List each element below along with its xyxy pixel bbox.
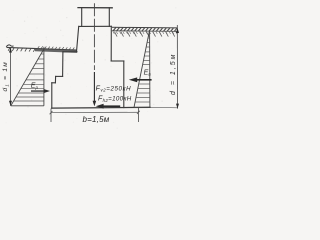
ground hatch ticks left (below line) (8, 48, 35, 52)
ground band right (hatched strip) (112, 26, 178, 29)
left pressure triangle (passive) (11, 47, 44, 106)
right step (111, 60, 124, 62)
hypotenuse (134, 30, 150, 107)
block right edge (110, 26, 112, 61)
left lower-mid edge (54, 76, 56, 82)
dense fringe below right ground band (113, 32, 177, 34)
scan noise speckles (2, 4, 176, 129)
left step 3 (52, 82, 56, 84)
ticks above ground line near wall (38, 46, 75, 50)
d dimension line (right) (176, 25, 178, 109)
force Fv arrow (vertical, on axis) (93, 72, 95, 102)
lower left edge (51, 83, 53, 108)
d1 arrows (9, 48, 12, 106)
svg-text:b=1,5м: b=1,5м (83, 115, 110, 124)
left step 2 (56, 75, 63, 77)
sparse ticks below right ground band (115, 32, 175, 37)
hypotenuse (11, 49, 44, 106)
vertical right edge (149, 30, 151, 107)
vertical right edge (43, 47, 45, 106)
svg-text:d1 = 1м: d1 = 1м (2, 61, 9, 92)
b dimension end ticks (50, 111, 140, 115)
paper background (0, 0, 182, 131)
force Fh arrow (horizontal) (96, 104, 121, 109)
b dimension line (51, 111, 138, 113)
b dimension extension left (50, 109, 52, 123)
column left edge (81, 8, 83, 27)
ground band fill hatch right (113, 28, 177, 32)
right pressure triangle (active) (134, 30, 150, 107)
block top line (79, 25, 111, 27)
d arrows (176, 28, 179, 109)
d1 dimension line (left) (10, 48, 12, 106)
arrow Ep (31, 89, 50, 93)
ground line left (7, 47, 78, 50)
left mid edge (62, 52, 64, 77)
axis dashed centerline (93, 3, 95, 70)
bottom edge (134, 106, 150, 108)
bottom edge (11, 105, 44, 107)
svg-text:d = 1,5м: d = 1,5м (170, 53, 177, 95)
base bottom extension to d-dimension (150, 106, 178, 109)
b dimension extension right (137, 108, 139, 122)
column right edge (108, 8, 110, 27)
arrow Ea (129, 77, 152, 82)
lower right edge (123, 61, 125, 108)
break squiggle at ground line start (6, 45, 13, 47)
cap line (78, 7, 112, 9)
left step 1 (63, 51, 77, 53)
right triangle rungs (135, 34, 150, 103)
foundation outline (52, 8, 150, 109)
base bottom line (52, 106, 150, 109)
ground dark hatch band left (merged hatch near wall) (35, 49, 77, 53)
left triangle rungs (14, 54, 44, 101)
block left edge (77, 26, 79, 51)
